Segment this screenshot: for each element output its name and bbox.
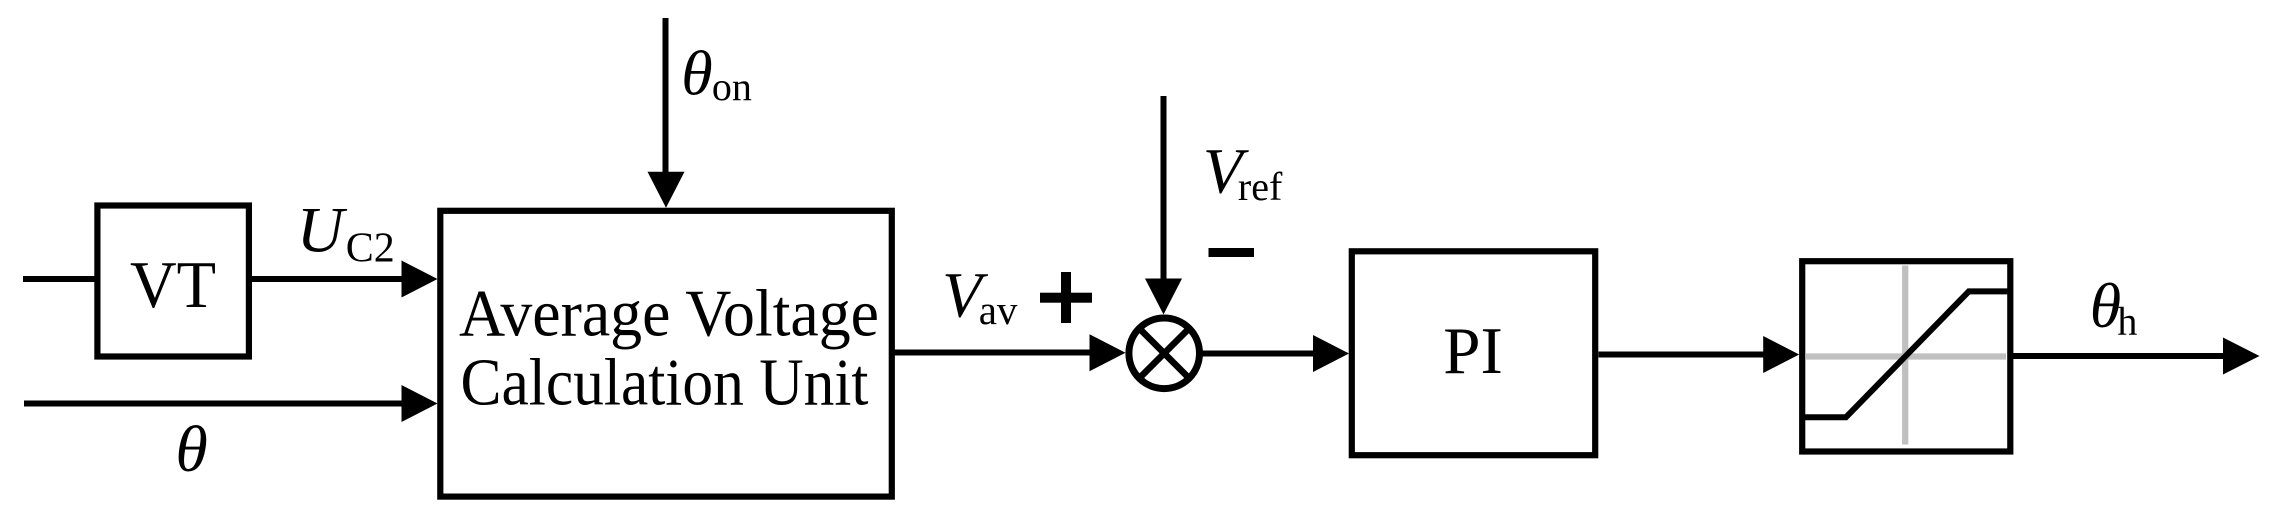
svg-text:C2: C2 bbox=[346, 226, 395, 272]
plus sign bbox=[1040, 272, 1092, 323]
svg-text:Average Voltage: Average Voltage bbox=[459, 276, 879, 350]
svg-text:θ: θ bbox=[175, 413, 207, 486]
label theta_on bbox=[681, 38, 752, 110]
svg-text:Calculation Unit: Calculation Unit bbox=[461, 346, 869, 420]
limiter saturation curve bbox=[1802, 291, 2010, 417]
limiter gray horizontal axis bbox=[1806, 353, 2006, 359]
arrowhead Vav into summing junction bbox=[1090, 334, 1126, 371]
wire theta_on vertical bbox=[663, 18, 669, 173]
svg-text:θ: θ bbox=[681, 38, 712, 109]
arrowhead into calc unit (UC2) bbox=[402, 261, 438, 298]
label theta_h bbox=[2090, 270, 2138, 343]
wire VT to Average Voltage Calculation Unit bbox=[247, 276, 404, 282]
block Average Voltage Calculation Unit bbox=[440, 211, 892, 497]
arrowhead theta into calc unit bbox=[402, 385, 438, 422]
label Vref bbox=[1203, 136, 1283, 210]
arrowhead into limiter bbox=[1763, 336, 1799, 373]
wire limiter to output bbox=[2013, 353, 2225, 359]
summing junction X diagonal 1 bbox=[1139, 328, 1189, 378]
block saturation limiter bbox=[1802, 261, 2010, 451]
svg-text:av: av bbox=[979, 287, 1018, 333]
arrowhead Vref into summing junction top bbox=[1145, 279, 1182, 315]
summing junction X diagonal 2 bbox=[1139, 328, 1189, 378]
summing junction circle bbox=[1129, 318, 1200, 389]
svg-text:ref: ref bbox=[1238, 164, 1283, 209]
svg-text:U: U bbox=[297, 195, 348, 267]
label UC2 bbox=[297, 195, 395, 272]
arrowhead theta_on into calc unit top bbox=[648, 172, 685, 208]
svg-text:PI: PI bbox=[1443, 314, 1503, 388]
arrowhead output bbox=[2223, 338, 2260, 375]
wire summing junction to PI bbox=[1202, 351, 1316, 357]
minus sign bbox=[1209, 248, 1255, 257]
block PI bbox=[1352, 251, 1595, 455]
label Vav bbox=[942, 260, 1018, 333]
svg-text:VT: VT bbox=[130, 248, 216, 322]
wire input to VT bbox=[23, 276, 100, 282]
wire PI to limiter bbox=[1599, 352, 1767, 358]
svg-text:on: on bbox=[712, 64, 752, 109]
svg-text:h: h bbox=[2117, 299, 2137, 344]
wire Vref vertical bbox=[1161, 96, 1167, 281]
limiter gray vertical axis bbox=[1902, 266, 1908, 445]
arrowhead into PI bbox=[1313, 335, 1349, 372]
block VT bbox=[97, 206, 249, 357]
wire theta input bbox=[24, 401, 404, 407]
wire Vav from calc unit to summing junction bbox=[894, 350, 1091, 356]
